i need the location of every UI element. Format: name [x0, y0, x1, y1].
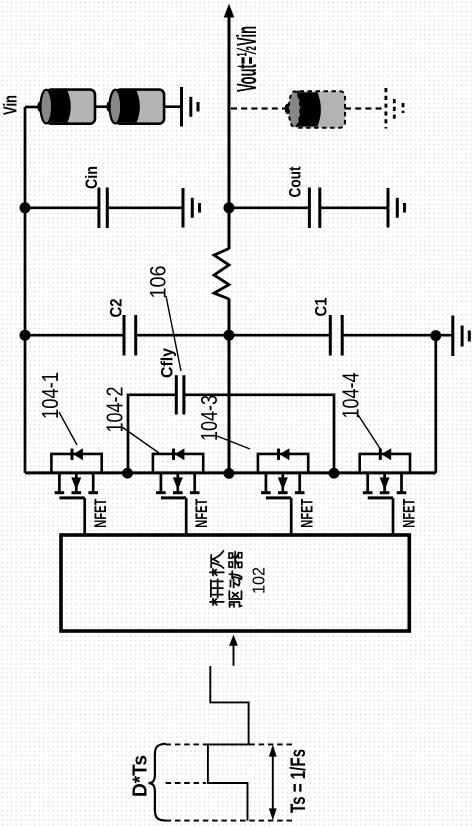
waveform PWM signal	[208, 666, 249, 821]
label Chinese "驱" (drive) in driver box	[229, 591, 241, 607]
ground G4	[453, 316, 470, 357]
node junction left rail / Cin	[20, 202, 31, 213]
wire Vin to battery	[25, 106, 40, 109]
capacitor C1	[330, 315, 342, 356]
capacitor Cfly	[176, 375, 184, 414]
wire main switch line	[25, 471, 436, 474]
label NFET of Q2	[193, 499, 211, 528]
wire rail to C1	[229, 334, 330, 337]
leader 104-2 to Q2 diode	[122, 427, 159, 453]
label 102	[249, 567, 269, 594]
wire Cout to ground	[320, 206, 388, 209]
transistor Q2 (NFET with body diode)	[153, 448, 203, 535]
label 104-2	[102, 387, 128, 433]
wire C2 to Vout rail	[136, 334, 229, 337]
wire C1 to right rail	[342, 334, 453, 337]
leader 104-3 to Q3 diode	[217, 436, 250, 449]
svg-text:Vin: Vin	[0, 95, 21, 115]
svg-text:NFET: NFET	[400, 499, 418, 528]
leader 104-4 to Q4 diode	[358, 414, 382, 450]
label Cin	[83, 166, 101, 189]
ground G3	[388, 188, 405, 228]
label Cout	[286, 166, 305, 197]
label C2	[108, 299, 126, 318]
wire BT2 to ground	[164, 105, 181, 108]
label NFET of Q1	[92, 499, 110, 528]
ground G1	[182, 87, 199, 127]
node junction Vout rail / Cout	[224, 202, 235, 213]
wire rail to Cin	[25, 206, 99, 209]
label Ts = 1/Fs	[287, 749, 310, 813]
battery cell BT1	[38, 90, 95, 124]
label Chinese "栅" (gate) in driver box	[210, 579, 224, 605]
label 104-1	[37, 372, 63, 419]
brace D*Ts	[149, 744, 166, 821]
dashed timing line bottom	[166, 820, 294, 822]
svg-text:NFET: NFET	[92, 499, 110, 528]
capacitor Cout	[309, 188, 319, 229]
node Vout dot	[224, 468, 235, 479]
svg-text:106: 106	[146, 266, 171, 299]
node Vout arrow	[224, 4, 235, 474]
transistor Q3 (NFET with body diode)	[258, 448, 308, 535]
label NFET of Q3	[299, 499, 317, 528]
wire node A up and to Cfly	[128, 395, 176, 474]
node Vout label	[231, 26, 262, 92]
svg-text:Cout: Cout	[286, 166, 305, 197]
svg-text:D*Ts: D*Ts	[130, 755, 152, 797]
resistor load on Vout rail	[214, 249, 229, 300]
svg-text:Vout=½Vin: Vout=½Vin	[231, 26, 262, 92]
wire dashed Vout to battery	[231, 107, 287, 109]
ground G2	[183, 188, 200, 228]
dashed timing line middle	[166, 782, 206, 784]
svg-text:102: 102	[249, 567, 269, 594]
wire dashed battery to ground	[345, 107, 382, 109]
svg-text:104-4: 104-4	[338, 372, 364, 418]
label NFET of Q4	[400, 499, 418, 528]
wire rail to Cout	[229, 206, 309, 209]
node junction right rail	[430, 330, 441, 341]
node junction Vout rail / C-row	[224, 330, 235, 341]
svg-text:C1: C1	[313, 298, 331, 317]
svg-text:NFET: NFET	[299, 499, 317, 528]
capacitor Cin	[99, 188, 107, 229]
battery cell BT2	[107, 90, 164, 124]
battery cell dashed (load)	[285, 91, 345, 128]
svg-text:C2: C2	[108, 299, 126, 318]
wire Cfly to node B	[184, 395, 334, 474]
node A dot	[122, 468, 133, 479]
label Chinese "极" (electrode) in driver box	[210, 551, 224, 576]
label D*Ts	[130, 755, 152, 797]
label 104-3	[196, 395, 222, 441]
svg-text:104-3: 104-3	[196, 395, 222, 441]
dashed timing line top	[166, 743, 294, 745]
gate driver box U102	[61, 535, 409, 631]
svg-text:Cfly: Cfly	[159, 347, 177, 378]
svg-text:NFET: NFET	[193, 499, 211, 528]
dimension arrow Ts	[269, 745, 277, 821]
label Chinese "器" (device) in driver box	[229, 551, 242, 568]
node Vin label	[0, 95, 21, 115]
label Cfly	[159, 347, 177, 378]
arrow input to gate driver	[229, 635, 238, 666]
leader 106 to Cfly	[166, 296, 181, 371]
label 106	[146, 266, 171, 299]
svg-text:104-2: 104-2	[102, 387, 128, 433]
wire rail to C2	[25, 334, 124, 337]
capacitor C2	[124, 315, 136, 356]
transistor Q4 (NFET with body diode)	[360, 448, 410, 535]
wire right rail	[434, 336, 437, 473]
wire left rail	[24, 107, 27, 473]
wire Cin to ground	[107, 206, 183, 209]
node B dot	[329, 468, 340, 479]
svg-text:Cin: Cin	[83, 166, 101, 189]
node junction left rail / C2	[20, 330, 31, 341]
transistor Q1 (NFET with body diode)	[51, 448, 101, 535]
label C1	[313, 298, 331, 317]
ground G5 dashed	[386, 88, 403, 129]
label 104-4	[338, 372, 364, 418]
svg-text:Ts = 1/Fs: Ts = 1/Fs	[287, 749, 310, 813]
wire BT1 to BT2	[95, 105, 109, 108]
leader 104-1 to Q1 diode	[59, 412, 77, 445]
label Chinese "动" (move) in driver box	[229, 571, 242, 587]
